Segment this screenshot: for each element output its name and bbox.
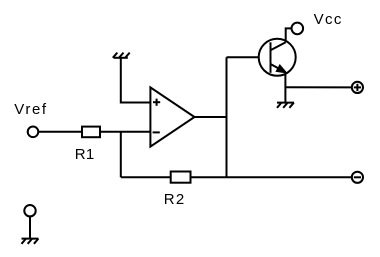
wire R2 to minus output terminal xyxy=(191,176,352,178)
op-amp plus input marker xyxy=(153,99,160,106)
wire emitter junction to plus output terminal xyxy=(285,86,351,88)
terminal minus output xyxy=(352,172,363,183)
transistor Q1 (NPN) xyxy=(259,39,296,76)
op-amp minus input marker xyxy=(153,131,160,133)
wire collector to Vcc xyxy=(286,28,292,42)
wire op-amp output xyxy=(195,116,227,118)
wire feedback bottom left segment xyxy=(121,176,171,178)
terminal Vcc xyxy=(292,23,304,35)
wire emitter down to ground xyxy=(284,72,286,102)
resistor R2 xyxy=(171,172,191,183)
terminal Vref (input port circle) xyxy=(28,127,39,138)
resistor R1 xyxy=(82,127,100,138)
label R1 xyxy=(75,146,95,163)
node output net vertical wire xyxy=(226,57,228,177)
label Vref xyxy=(14,101,47,118)
terminal bottom-left port xyxy=(24,205,35,216)
wire bottom-left terminal to ground xyxy=(29,216,31,238)
label R2 xyxy=(164,191,186,208)
label Vcc xyxy=(314,11,343,28)
ground (transistor emitter) xyxy=(277,103,294,108)
terminal plus output xyxy=(352,82,363,93)
wire Vref to R1 xyxy=(38,131,82,133)
op-amp U1 xyxy=(150,87,194,146)
ground (inverted, at op-amp non-inverting input) xyxy=(113,53,130,58)
ground (bottom-left) xyxy=(22,239,39,244)
wire to transistor base xyxy=(227,56,259,58)
wire ground down to non-inverting input xyxy=(121,58,151,103)
node feedback junction vertical wire xyxy=(120,132,122,177)
wire R1 to op-amp inverting input xyxy=(100,131,150,133)
